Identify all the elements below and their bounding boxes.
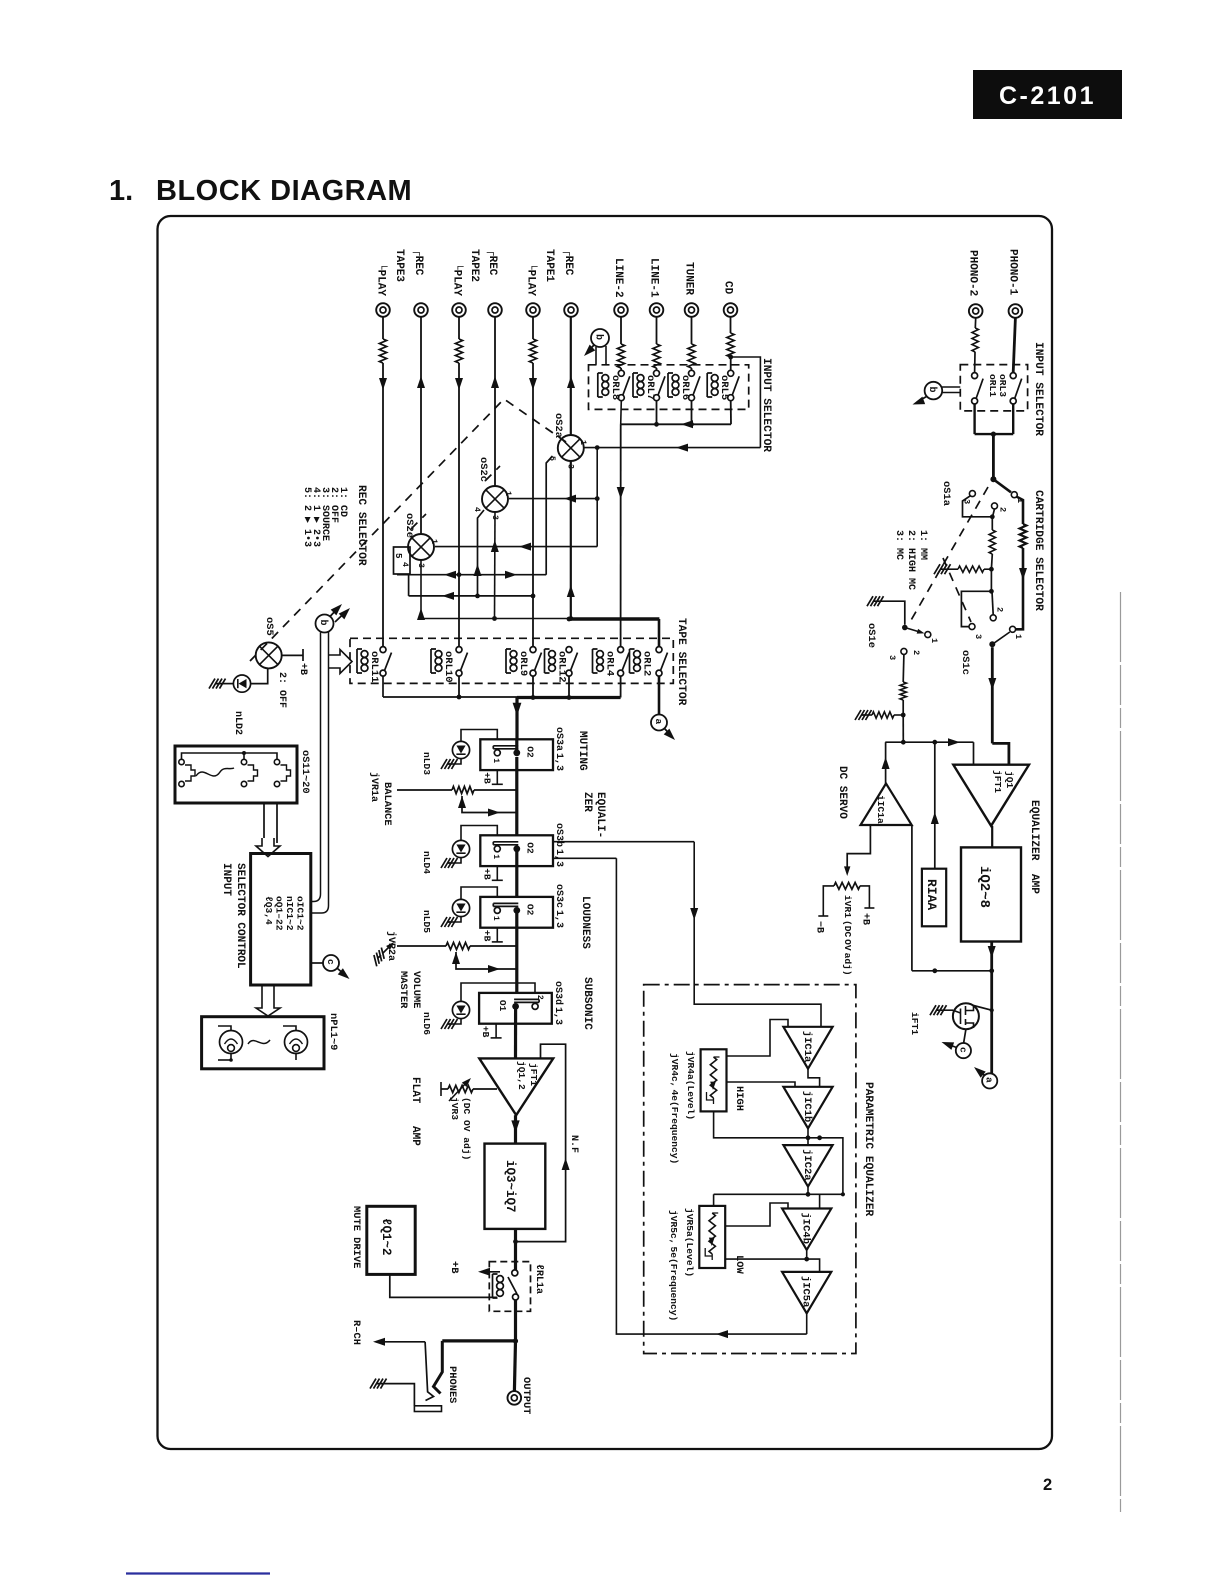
svg-text:INPUT SELECTOR: INPUT SELECTOR: [760, 358, 772, 452]
relay lRL1a dashed box: [489, 1262, 530, 1312]
model number box C-2101: [973, 70, 1122, 119]
phono input selector dashed box: [960, 365, 1027, 411]
wire feed oS2c pin1: [509, 495, 597, 503]
wire tape3 play line: [382, 317, 384, 647]
svg-text:oRL6: oRL6: [679, 375, 691, 400]
switch module oS3d SUBSONIC: [479, 993, 552, 1024]
label nLD2: [232, 711, 243, 735]
wire oS2c pin3 down: [491, 512, 499, 619]
switch oS5: [256, 642, 282, 668]
jack PHONO-1: [1009, 304, 1023, 318]
wire mute drive to relay coil: [390, 1274, 497, 1297]
svg-text:ℓRL1a: ℓRL1a: [533, 1264, 544, 1294]
variable resistor jVR2a: [446, 942, 517, 949]
ground resistor oS1e chain: [855, 710, 903, 720]
svg-text:2: 2: [911, 650, 921, 655]
label LINE-1: [648, 258, 660, 298]
+B equalizer module: [481, 866, 503, 880]
svg-text:3: 3: [887, 655, 897, 660]
arrow tape3 play down: [379, 378, 387, 390]
switch oS1a common: [990, 476, 1011, 492]
variable resistor jVR3: [441, 1076, 497, 1101]
variable resistor iVR1: [834, 883, 860, 890]
label DC SERVO: [836, 766, 848, 819]
wire servo in from iVR1: [844, 825, 870, 876]
relay contact oRL1: [1010, 373, 1022, 404]
led nLD4: [452, 826, 497, 864]
svg-text:LINE-2: LINE-2: [612, 258, 624, 298]
svg-text:iFT1: iFT1: [909, 1012, 920, 1035]
arrow from eq circle c: [940, 1038, 956, 1050]
dashed tick oS2e: [411, 514, 426, 529]
svg-text:oQ1–22: oQ1–22: [274, 896, 285, 931]
svg-text:1: 1: [429, 539, 438, 544]
arrow from circle b: [581, 345, 595, 359]
svg-text:oS2e: oS2e: [403, 513, 415, 538]
wire phono selected join: [975, 404, 1014, 479]
wire servo out up: [882, 742, 890, 783]
control box contents: [263, 896, 306, 931]
svg-text:LOUDNESS: LOUDNESS: [579, 896, 591, 949]
svg-text:−B: −B: [814, 921, 825, 933]
relay oRL12: [545, 647, 578, 683]
hollow arrow control bus to tape relays: [329, 650, 353, 674]
svg-text:+B: +B: [481, 868, 492, 880]
dashed linkage to oS1c: [943, 558, 971, 622]
wire feedback riaa bottom: [912, 825, 992, 973]
svg-text:+B: +B: [860, 913, 871, 925]
dashed tick oS2c: [485, 466, 500, 481]
circle b (top control): [591, 329, 609, 347]
resistor mm load: [989, 517, 995, 569]
switch oS1e: [902, 625, 925, 636]
svg-text:oRL4: oRL4: [604, 651, 616, 676]
wire oS1e c2 chain: [900, 654, 906, 717]
label TAPE1: [543, 249, 555, 282]
svg-text:RIAA: RIAA: [924, 879, 939, 910]
hollow arrow control box to lamps: [256, 985, 280, 1016]
lamp leads bottom: [218, 1054, 296, 1062]
pin labels oS2e: [400, 539, 438, 568]
svg-text:nLD3: nLD3: [421, 752, 432, 775]
led nLD5: [452, 887, 497, 922]
jack line-2: [614, 303, 628, 317]
svg-text:oS3c 1,3: oS3c 1,3: [553, 884, 564, 928]
legend cartridge selector: [893, 530, 928, 590]
label oS11~20: [299, 750, 311, 794]
phones jack sleeve: [414, 1406, 441, 1412]
oS1a contact 3: [962, 491, 976, 505]
wire iFT1 drain: [974, 1006, 992, 1011]
svg-text:1: 1: [491, 758, 500, 763]
dashed linkage oS1a to oS1e: [910, 487, 988, 622]
svg-text:jVR4c, 4e(Frequency): jVR4c, 4e(Frequency): [669, 1053, 680, 1164]
label PHONES: [446, 1366, 458, 1403]
relay contact oRL3: [972, 373, 984, 404]
op-amp iIC1a dc servo: [861, 784, 912, 826]
svg-text:oRL12: oRL12: [556, 651, 568, 683]
svg-text:└PLAY: └PLAY: [451, 263, 465, 296]
wire oS2c pin4 loop: [474, 510, 485, 596]
oS1c contact 1: [1010, 626, 1023, 639]
wire eq amp out: [988, 942, 996, 1074]
wire oS1a c1 thick: [1017, 497, 1024, 524]
resistor line-2: [617, 344, 624, 368]
wire nLD2 to ground: [220, 683, 233, 685]
svg-text:5: 2 ▶ 1•3: 5: 2 ▶ 1•3: [301, 487, 312, 547]
label jVR1a: [368, 772, 380, 802]
label N.F: [568, 1135, 579, 1153]
label oS1e: [865, 623, 877, 648]
jack OUTPUT: [508, 1391, 522, 1405]
switch oS1c: [989, 632, 1010, 647]
wire line-2 in: [620, 317, 622, 370]
label CD: [722, 281, 734, 295]
wire jVR5a to jIC4b: [725, 1203, 788, 1226]
arrow tape1 rec up: [567, 376, 575, 388]
svg-text:O2: O2: [524, 746, 535, 758]
arrow tape1 play down: [529, 378, 537, 390]
svg-text:┌REC: ┌REC: [562, 249, 574, 276]
label MUTING: [576, 731, 588, 771]
blue pen mark bottom left: [126, 1572, 270, 1574]
double arrows at circle b: [330, 601, 353, 622]
arrow from phono circle b: [911, 397, 926, 409]
ground nLD4: [441, 858, 458, 868]
svg-text:C-2101: C-2101: [999, 82, 1096, 110]
svg-text:oRL8: oRL8: [609, 375, 621, 400]
wavy link lamps: [248, 1040, 270, 1044]
label R-CH: [350, 1320, 362, 1345]
svg-text:nIC1~2: nIC1~2: [284, 896, 295, 931]
label TUNER: [683, 262, 695, 295]
jack tuner: [685, 303, 699, 317]
relay oRL4: [593, 647, 630, 677]
svg-text:R–CH: R–CH: [350, 1320, 362, 1345]
oS1a contact 2: [992, 503, 1008, 512]
wire node to jVR5a top: [713, 1194, 715, 1206]
svg-text:jVR3: jVR3: [449, 1097, 460, 1120]
svg-text:oS5: oS5: [263, 617, 275, 636]
svg-text:+B: +B: [448, 1261, 460, 1274]
resistor mc load thick: [1020, 524, 1027, 548]
svg-text:FLAT: FLAT: [409, 1077, 421, 1104]
label FLAT AMP: [409, 1077, 421, 1146]
switch oS2c: [482, 486, 508, 512]
wire tape1 rec line: [570, 317, 572, 435]
svg-text:jVR5a(Level): jVR5a(Level): [684, 1208, 695, 1277]
wire phono signal main: [988, 647, 1009, 764]
label jVR2a: [385, 931, 397, 961]
wire main line through modules: [516, 739, 517, 1058]
label PHONO-1: [1006, 249, 1018, 296]
svg-text:└PLAY: └PLAY: [525, 263, 539, 296]
svg-text:INPUT: INPUT: [220, 863, 232, 896]
input selector control box: [251, 854, 311, 986]
wire tuner in: [691, 317, 693, 370]
label nLD5: [421, 910, 432, 933]
svg-text:jIC4b: jIC4b: [800, 1213, 812, 1245]
svg-text:N.F: N.F: [568, 1135, 579, 1153]
pin labels oS2c: [472, 491, 512, 520]
svg-text:AMP: AMP: [409, 1126, 421, 1146]
wire gnd to oS1e common: [878, 601, 905, 625]
label TAPE2 REC: [486, 249, 498, 276]
svg-text:ZER: ZER: [581, 792, 593, 812]
label oS1c: [959, 650, 971, 675]
svg-text:4: 4: [472, 507, 481, 512]
op-amp jIC4b: [782, 1209, 831, 1250]
op-amp jFT1 jQ1 eq input: [953, 765, 1029, 826]
svg-text:nLD6: nLD6: [421, 1012, 432, 1035]
svg-text:DC SERVO: DC SERVO: [836, 766, 848, 819]
label PARAMETRIC EQUALIZER: [862, 1082, 874, 1217]
ground nLD6: [441, 1019, 458, 1029]
legend rec selector positions: [301, 487, 348, 547]
svg-text:b: b: [317, 620, 329, 626]
svg-text:+B: +B: [480, 1026, 491, 1038]
label LOUDNESS: [579, 896, 591, 949]
wiper tick jVR2a: [370, 940, 396, 966]
svg-text:PARAMETRIC EQUALIZER: PARAMETRIC EQUALIZER: [862, 1082, 874, 1217]
wire oS2e pin3 down: [420, 560, 422, 619]
svg-text:oRL1: oRL1: [987, 374, 998, 397]
wire to oS1c c3: [961, 569, 993, 626]
resistor tape2 play: [455, 339, 462, 363]
svg-text:+B: +B: [297, 663, 308, 675]
arrow from circle a: [664, 729, 678, 743]
lamp 2: [283, 1026, 308, 1054]
tape selector dashed box: [350, 638, 673, 683]
resistor tuner: [688, 344, 695, 368]
wire rec chain vertical: [595, 448, 600, 547]
wire phono-2 down: [975, 318, 976, 373]
label INPUT SELECTOR (line relays): [760, 358, 772, 452]
svg-text:CARTRIDGE SELECTOR: CARTRIDGE SELECTOR: [1032, 490, 1044, 611]
level pot jVR5a box: [699, 1206, 725, 1268]
svg-text:iIC1a: iIC1a: [875, 795, 886, 824]
svg-text:jVR2a: jVR2a: [385, 931, 397, 961]
circle a (tape out): [651, 715, 667, 731]
svg-text:jFT1: jFT1: [528, 1063, 539, 1086]
label lRL1a: [533, 1264, 544, 1294]
label TAPE3 REC: [412, 249, 424, 276]
block RIAA: [922, 869, 946, 927]
label nLD3: [421, 752, 432, 775]
wire send to parametric eq: [553, 842, 821, 1027]
svg-text:┌REC: ┌REC: [412, 249, 424, 276]
svg-text:VOLUME: VOLUME: [410, 971, 422, 1008]
svg-text:MASTER: MASTER: [397, 971, 409, 1009]
switch symbol 1 in oS11 box: [179, 759, 195, 786]
jack tape3 play: [376, 303, 390, 317]
relay oRL6: [668, 370, 700, 400]
wire NF feedback: [513, 1044, 570, 1244]
switch oS2e: [408, 534, 434, 560]
svg-text:TAPE SELECTOR: TAPE SELECTOR: [675, 618, 687, 706]
wire tape relay outputs bus: [383, 676, 621, 700]
oS1e contact 3 label: [887, 655, 897, 660]
wiper jVR1a: [458, 796, 517, 817]
svg-text:TAPE1: TAPE1: [543, 249, 555, 282]
resistor cd: [727, 333, 734, 357]
jack tape1 play: [526, 303, 540, 317]
label jVR5a(Level): [684, 1208, 695, 1277]
switch bank oS11~20 box: [175, 746, 297, 803]
label oS1a: [940, 481, 952, 506]
svg-text:jQ1,2: jQ1,2: [516, 1061, 527, 1090]
svg-text:3: MC: 3: MC: [893, 530, 904, 560]
svg-text:2: 2: [535, 995, 544, 1000]
block iQ3~iQ7: [485, 1144, 546, 1229]
svg-text:1: 1: [491, 854, 500, 859]
label HIGH: [733, 1086, 745, 1111]
svg-text:iVR1 (DC OV adj): iVR1 (DC OV adj): [842, 895, 853, 976]
svg-text:oS3a 1,3: oS3a 1,3: [553, 727, 564, 771]
jack tape2 rec: [488, 303, 502, 317]
svg-text:└PLAY: └PLAY: [375, 263, 389, 296]
svg-text:MUTE DRIVE: MUTE DRIVE: [350, 1206, 362, 1268]
svg-text:BLOCK DIAGRAM: BLOCK DIAGRAM: [156, 175, 412, 207]
jack cd: [724, 303, 738, 317]
wire thick oRL2 down: [658, 619, 661, 715]
svg-text:oS1c: oS1c: [959, 650, 971, 675]
svg-text:1: 1: [503, 491, 512, 496]
svg-text:jVR1a: jVR1a: [368, 772, 380, 802]
switch symbol 3 in oS11 box: [274, 759, 290, 786]
wire jVR4a to jIC1b: [727, 1082, 796, 1087]
wavy link in oS11 box: [196, 768, 234, 776]
wire oS2a pin5 loop: [546, 456, 552, 575]
svg-text:TAPE2: TAPE2: [468, 249, 480, 282]
wire tape2 play line: [458, 317, 460, 647]
label iFT1: [909, 1012, 920, 1035]
svg-text:PHONO-2: PHONO-2: [967, 250, 979, 296]
svg-text:nLD5: nLD5: [421, 910, 432, 933]
+B muting module: [481, 770, 503, 784]
svg-text:a: a: [984, 1077, 995, 1083]
wire iQ3 out to mute relay: [514, 1229, 517, 1270]
label MUTE DRIVE: [350, 1206, 362, 1268]
wire iVR1 to -B: [818, 886, 834, 916]
svg-text:c: c: [325, 959, 336, 965]
+B subsonic module: [480, 1024, 502, 1038]
svg-text:2: OFF: 2: OFF: [276, 672, 287, 708]
svg-text:O2: O2: [524, 842, 535, 854]
label jVR4c,4e(Frequency): [669, 1053, 680, 1164]
arrow from circle c: [338, 968, 353, 982]
wire oS1a c3 c2 join: [963, 496, 995, 519]
wire jft1 out: [991, 826, 993, 848]
pin 5 box at oS2e: [393, 547, 410, 574]
wire main signal into muting: [513, 698, 522, 740]
rec bus lower: [417, 608, 573, 621]
label TAPE2: [468, 249, 480, 282]
op-amp jIC1a: [783, 1027, 832, 1069]
svg-text:oS3b 1,3: oS3b 1,3: [553, 823, 565, 867]
relay lRL1a coil: [493, 1274, 504, 1298]
label nLD6: [421, 1012, 432, 1035]
svg-text:oS1a: oS1a: [940, 481, 952, 506]
label oS3d1,3: [552, 981, 564, 1025]
wire cd to rec selector: [731, 357, 761, 448]
label nPL1~9: [327, 1013, 339, 1050]
relay oRL11: [357, 647, 392, 683]
label oS3c1,3: [553, 884, 564, 928]
switch oS2a: [558, 435, 584, 461]
svg-text:iQ2~8: iQ2~8: [976, 866, 992, 908]
diagram border frame: [158, 216, 1053, 1449]
wire oS2a pin3 down: [567, 461, 575, 619]
label LOW: [733, 1255, 745, 1274]
svg-text:EQUALI-: EQUALI-: [594, 792, 606, 838]
arrow tape3 rec up: [417, 376, 425, 388]
label CARTRIDGE SELECTOR: [1032, 490, 1044, 611]
svg-text:LOW: LOW: [733, 1255, 745, 1274]
svg-text:LINE-1: LINE-1: [648, 258, 660, 298]
svg-text:1: MM: 1: MM: [917, 530, 928, 560]
label iVR1 (DC OV adj): [842, 895, 853, 976]
wire return from parametric eq: [553, 858, 807, 1338]
wire oS5 to +B: [282, 649, 303, 661]
lamp box nPL1~9: [202, 1017, 324, 1069]
ground resistor tee: [934, 564, 994, 574]
parametric equalizer dash-dot box: [644, 985, 856, 1354]
svg-text:nLD2: nLD2: [232, 711, 243, 735]
arrow tape2 play down: [455, 378, 463, 390]
label EQUALI-ZER: [581, 792, 606, 838]
wire phones branch thick: [434, 1341, 516, 1394]
svg-text:b: b: [926, 387, 938, 393]
block iQ2~8: [961, 847, 1021, 941]
wire relay to output node: [513, 1300, 518, 1344]
ground nLD2: [209, 679, 226, 689]
op-amp jIC1b: [783, 1087, 832, 1129]
jack line-1: [650, 303, 664, 317]
svg-text:┌REC: ┌REC: [486, 249, 498, 276]
switch module oS3c LOUDNESS: [480, 897, 553, 928]
relay oRL5: [707, 370, 739, 400]
label oS5: [263, 617, 275, 636]
rec bus line2: [409, 574, 536, 600]
wire jIC1a out to jIC1b: [808, 1069, 820, 1087]
wire tape3 rec line: [420, 317, 422, 534]
relay oRL8: [598, 370, 630, 400]
svg-text:O2: O2: [524, 904, 535, 916]
wire tape1 play line: [532, 317, 534, 647]
hollow arrow into control box: [256, 838, 280, 857]
svg-text:PHONO-1: PHONO-1: [1006, 249, 1018, 296]
level pot jVR4a box: [701, 1049, 727, 1111]
+B loudness module: [481, 928, 503, 942]
circle a (eq out): [982, 1073, 997, 1088]
svg-text:oRL5: oRL5: [718, 375, 730, 400]
ground oS1e: [867, 596, 884, 606]
oS1c contact 2: [990, 607, 1004, 621]
label OUTPUT: [520, 1377, 532, 1414]
svg-text:2: 2: [998, 507, 1008, 512]
svg-text:TAPE3: TAPE3: [393, 249, 405, 282]
arrow tape2 rec up: [491, 376, 499, 388]
wire balance feed: [397, 789, 452, 791]
svg-text:+B: +B: [481, 930, 492, 942]
svg-text:oS11~20: oS11~20: [299, 750, 311, 794]
svg-text:1: 1: [929, 638, 939, 643]
relay oRL9: [506, 647, 542, 677]
wire mc to oS1c c1: [1016, 548, 1027, 629]
stub wires below oS11 box: [264, 803, 277, 843]
wire rec select feed oS2a: [584, 444, 761, 452]
